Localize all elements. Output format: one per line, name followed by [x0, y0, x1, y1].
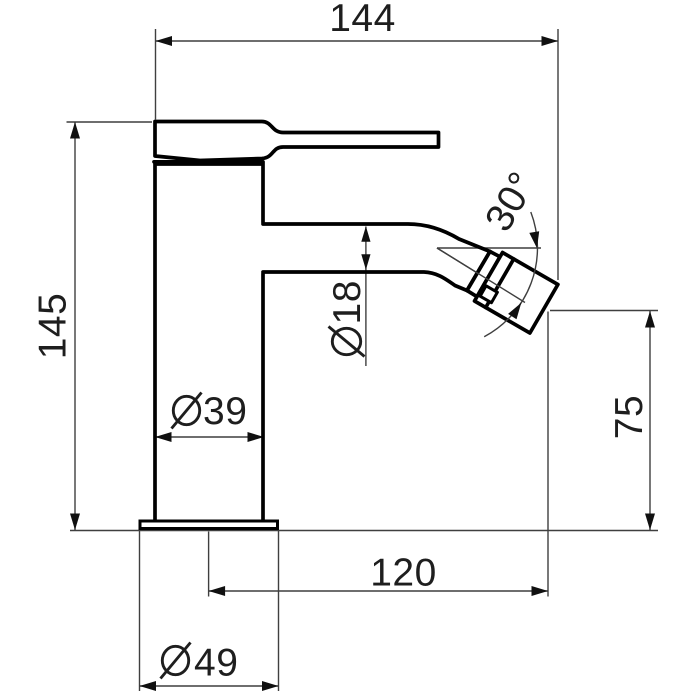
svg-text:120: 120 — [370, 552, 437, 595]
dim 75 extension and line — [550, 311, 658, 531]
dim 145 extension and line — [67, 122, 659, 531]
dim O18 line — [365, 227, 367, 367]
faucet silhouette fills — [155, 163, 492, 520]
svg-text:18: 18 — [326, 280, 369, 324]
lever handle — [155, 122, 439, 161]
svg-text:49: 49 — [194, 642, 238, 685]
svg-text:75: 75 — [608, 395, 651, 439]
spout end face — [467, 252, 490, 291]
dim 144 extension and line — [156, 29, 559, 280]
dim 30deg reference lines — [437, 248, 541, 303]
base flange — [140, 521, 278, 529]
text O18 — [326, 280, 369, 356]
dim O39 line — [155, 436, 264, 438]
spout bottom edge — [263, 272, 467, 291]
arrowheads — [70, 36, 655, 691]
spout top edge — [263, 224, 490, 252]
aerator collar — [467, 252, 500, 297]
aerator detail rect — [480, 286, 497, 303]
body column — [155, 163, 263, 520]
30deg centerline over nozzle — [437, 248, 525, 303]
aerator block — [475, 253, 558, 334]
svg-text:39: 39 — [203, 390, 247, 433]
text O39 — [173, 396, 199, 424]
text O49 — [162, 646, 188, 674]
svg-text:144: 144 — [329, 0, 396, 40]
cartridge cap line — [154, 160, 263, 164]
svg-text:145: 145 — [32, 293, 75, 360]
aerator inner line — [486, 259, 514, 308]
dim 120 extension and line — [209, 312, 548, 597]
dim O49 extension and line — [140, 531, 279, 691]
30deg dimension arc — [484, 212, 537, 337]
arc arrow at horizontal line — [529, 231, 539, 248]
arc arrow at 30deg line — [508, 303, 521, 320]
